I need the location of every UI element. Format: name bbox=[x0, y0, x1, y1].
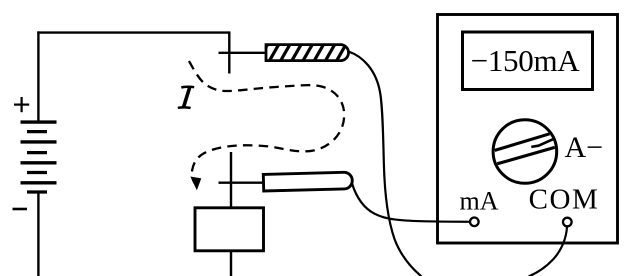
resistor R (box) bbox=[195, 208, 264, 251]
svg-text:COM: COM bbox=[529, 183, 600, 215]
wire lower break vertical stub bbox=[230, 152, 232, 209]
COM jack terminal bbox=[563, 218, 572, 227]
battery negative label - bbox=[13, 208, 28, 211]
rotary dial knob bbox=[493, 120, 557, 184]
current arrowhead bbox=[191, 177, 200, 189]
svg-text:A−: A− bbox=[565, 131, 604, 164]
multimeter M1 case bbox=[438, 15, 618, 244]
test lead from probe P1 down off bottom edge bbox=[349, 52, 422, 276]
probe P1 hatched handle bbox=[258, 41, 349, 62]
knob bar lower edge bbox=[497, 147, 555, 163]
current label I bbox=[178, 87, 194, 108]
wire left vertical from top wire to battery top plate bbox=[37, 31, 39, 121]
probe P2 white handle bbox=[263, 172, 352, 191]
mA jack terminal bbox=[470, 218, 479, 227]
knob bar upper edge bbox=[495, 134, 550, 151]
wire below resistor to bottom edge bbox=[230, 251, 232, 276]
dashed current path bbox=[189, 61, 344, 183]
battery positive label + bbox=[14, 97, 29, 112]
test lead from COM jack down off bottom edge bbox=[529, 227, 568, 276]
wire upper break vertical stub bbox=[228, 31, 230, 73]
wire top horizontal from battery + to upper break bbox=[37, 31, 229, 33]
knob pointer mark bbox=[531, 139, 553, 147]
multimeter display bezel bbox=[463, 32, 593, 90]
wire left bottom from battery - to bottom edge bbox=[37, 192, 39, 276]
svg-text:−150mA: −150mA bbox=[471, 43, 581, 78]
test lead from probe P2 to mA jack bbox=[352, 184, 470, 222]
svg-text:mA: mA bbox=[460, 186, 499, 215]
battery B1 plates bbox=[21, 122, 57, 192]
probe P1 tip line at upper break bbox=[219, 52, 267, 54]
probe P2 tip line at lower break bbox=[219, 181, 267, 183]
